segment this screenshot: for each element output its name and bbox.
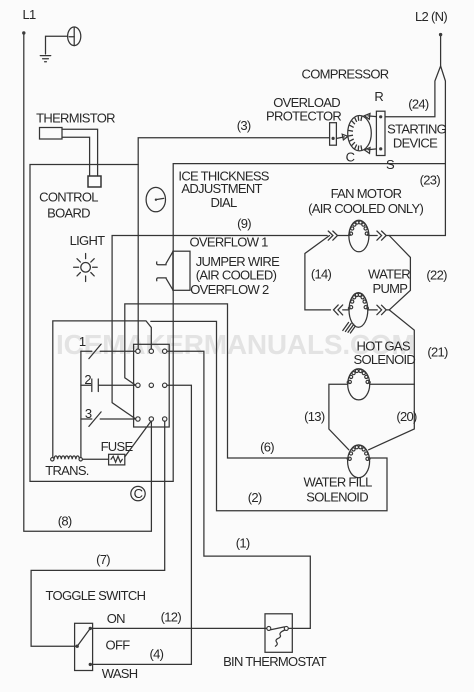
svg-text:WATER: WATER — [368, 267, 410, 282]
svg-text:1: 1 — [79, 334, 86, 349]
svg-text:(AIR COOLED ONLY): (AIR COOLED ONLY) — [308, 201, 423, 216]
svg-text:(AIR COOLED): (AIR COOLED) — [196, 267, 277, 282]
svg-text:PUMP: PUMP — [373, 281, 408, 296]
svg-text:TOGGLE SWITCH: TOGGLE SWITCH — [46, 588, 146, 603]
svg-text:(1): (1) — [236, 535, 250, 550]
svg-text:C: C — [346, 150, 355, 165]
svg-text:C: C — [134, 486, 143, 501]
svg-text:OVERFLOW 2: OVERFLOW 2 — [190, 282, 269, 297]
svg-text:(23): (23) — [420, 173, 441, 188]
svg-text:LIGHT: LIGHT — [70, 233, 106, 248]
svg-text:THERMISTOR: THERMISTOR — [36, 110, 115, 125]
svg-text:WASH: WASH — [102, 666, 138, 681]
svg-text:DIAL: DIAL — [210, 195, 237, 210]
svg-text:2: 2 — [84, 372, 91, 387]
svg-text:L1: L1 — [22, 7, 36, 22]
svg-text:(13): (13) — [304, 409, 325, 424]
svg-text:SOLENOID: SOLENOID — [354, 352, 416, 367]
svg-text:BIN THERMOSTAT: BIN THERMOSTAT — [223, 654, 327, 669]
svg-text:TRANS.: TRANS. — [45, 463, 89, 478]
svg-text:WATER FILL: WATER FILL — [304, 475, 373, 490]
svg-text:(20): (20) — [396, 409, 417, 424]
svg-text:(2): (2) — [248, 490, 262, 505]
svg-text:(14): (14) — [311, 267, 332, 282]
svg-text:(3): (3) — [237, 118, 251, 133]
svg-text:BOARD: BOARD — [47, 205, 90, 220]
svg-text:CONTROL: CONTROL — [39, 189, 98, 204]
svg-text:PROTECTOR: PROTECTOR — [266, 108, 341, 123]
svg-text:(12): (12) — [161, 610, 182, 625]
svg-text:R: R — [374, 89, 383, 104]
svg-text:(24): (24) — [408, 96, 429, 111]
svg-text:L2 (N): L2 (N) — [415, 9, 447, 24]
svg-text:FUSE: FUSE — [101, 439, 134, 454]
svg-text:(7): (7) — [96, 552, 110, 567]
svg-text:(4): (4) — [150, 647, 164, 662]
svg-text:(21): (21) — [427, 345, 448, 360]
svg-text:(22): (22) — [426, 268, 447, 283]
svg-text:OFF: OFF — [106, 638, 131, 653]
svg-text:DEVICE: DEVICE — [393, 136, 438, 151]
svg-text:SOLENOID: SOLENOID — [306, 490, 368, 505]
svg-text:(8): (8) — [58, 513, 72, 528]
svg-text:3: 3 — [85, 406, 92, 421]
svg-text:S: S — [386, 157, 395, 172]
svg-text:STARTING: STARTING — [387, 122, 447, 137]
svg-text:FAN MOTOR: FAN MOTOR — [331, 186, 402, 201]
svg-text:ON: ON — [107, 611, 125, 626]
svg-text:OVERFLOW 1: OVERFLOW 1 — [189, 235, 268, 250]
svg-text:(6): (6) — [260, 440, 274, 455]
svg-text:(9): (9) — [237, 216, 251, 231]
svg-text:COMPRESSOR: COMPRESSOR — [302, 66, 389, 81]
